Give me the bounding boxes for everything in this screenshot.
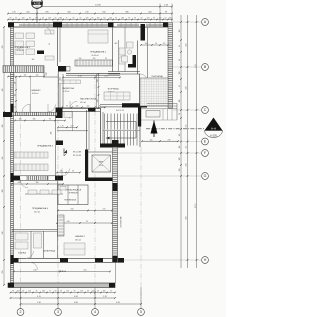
svg-text:95: 95 xyxy=(179,85,181,87)
svg-text:120: 120 xyxy=(86,18,89,20)
svg-text:СВЕТЛАРНИК: СВЕТЛАРНИК xyxy=(120,216,123,227)
svg-text:2.05: 2.05 xyxy=(102,209,105,211)
svg-text:95: 95 xyxy=(29,18,31,20)
svg-text:90: 90 xyxy=(13,75,15,77)
svg-text:239: 239 xyxy=(168,139,171,141)
svg-text:105: 105 xyxy=(24,75,27,77)
svg-text:840: 840 xyxy=(186,217,188,220)
svg-text:210: 210 xyxy=(85,12,88,14)
svg-text:60: 60 xyxy=(104,18,106,20)
svg-text:4.60: 4.60 xyxy=(116,302,120,304)
svg-text:140: 140 xyxy=(92,291,95,293)
svg-text:350: 350 xyxy=(2,157,4,160)
svg-text:60: 60 xyxy=(179,59,181,61)
svg-text:ЧИТАОНИЦА: ЧИТАОНИЦА xyxy=(43,250,56,253)
svg-text:28.6 м2: 28.6 м2 xyxy=(75,240,81,242)
svg-text:140: 140 xyxy=(28,291,31,293)
svg-text:90: 90 xyxy=(165,12,167,14)
svg-text:340: 340 xyxy=(33,119,36,121)
svg-text:КУХИЊА: КУХИЊА xyxy=(18,252,27,255)
svg-text:180: 180 xyxy=(121,18,124,20)
svg-text:213: 213 xyxy=(36,7,39,9)
svg-text:90: 90 xyxy=(49,119,51,121)
svg-text:60: 60 xyxy=(165,18,167,20)
svg-text:250: 250 xyxy=(102,12,105,14)
svg-text:290: 290 xyxy=(2,125,4,128)
svg-text:95: 95 xyxy=(14,106,16,108)
svg-text:70: 70 xyxy=(179,113,181,115)
svg-text:50: 50 xyxy=(80,18,82,20)
svg-text:150: 150 xyxy=(87,105,90,107)
svg-text:170: 170 xyxy=(12,12,15,14)
svg-text:140: 140 xyxy=(36,75,39,77)
svg-text:95: 95 xyxy=(92,18,94,20)
svg-text:45: 45 xyxy=(55,18,57,20)
svg-text:C: C xyxy=(204,108,207,112)
svg-text:105: 105 xyxy=(14,94,16,97)
svg-text:180: 180 xyxy=(103,291,106,293)
svg-text:G: G xyxy=(204,174,207,178)
svg-text:430: 430 xyxy=(186,87,188,90)
svg-text:430: 430 xyxy=(2,89,4,92)
svg-text:A-213: A-213 xyxy=(34,2,41,5)
svg-text:115: 115 xyxy=(186,146,188,149)
svg-text:ПРЕДАВАОНА 2: ПРЕДАВАОНА 2 xyxy=(90,51,107,54)
svg-text:95: 95 xyxy=(12,291,14,293)
svg-text:8x17.6 / 28: 8x17.6 / 28 xyxy=(116,110,124,112)
svg-text:45: 45 xyxy=(36,291,38,293)
svg-text:315: 315 xyxy=(186,125,188,128)
svg-text:95: 95 xyxy=(105,58,107,60)
svg-text:90: 90 xyxy=(10,18,12,20)
svg-text:90: 90 xyxy=(155,43,157,45)
svg-text:2: 2 xyxy=(20,310,22,314)
svg-text:3: 3 xyxy=(57,310,59,314)
svg-text:150: 150 xyxy=(35,18,38,20)
svg-text:150: 150 xyxy=(97,18,100,20)
svg-text:230: 230 xyxy=(179,169,181,172)
svg-text:ЗБОРНИЦА: ЗБОРНИЦА xyxy=(107,88,119,91)
svg-text:15.90: 15.90 xyxy=(95,5,101,7)
svg-text:КАБИНЕТ: КАБИНЕТ xyxy=(75,235,85,238)
svg-text:230: 230 xyxy=(186,164,188,167)
svg-text:2.40: 2.40 xyxy=(66,221,69,223)
svg-text:60: 60 xyxy=(87,291,89,293)
svg-text:ОПРЕМОМ: ОПРЕМОМ xyxy=(68,193,78,195)
svg-text:КЛ -16.93: КЛ -16.93 xyxy=(73,155,81,157)
svg-text:45: 45 xyxy=(115,18,117,20)
svg-text:H: H xyxy=(204,258,207,262)
svg-text:2.20: 2.20 xyxy=(103,296,107,298)
svg-text:130: 130 xyxy=(179,72,181,75)
svg-text:3.60: 3.60 xyxy=(74,302,78,304)
svg-text:380: 380 xyxy=(125,12,128,14)
svg-text:КАБИНЕТ: КАБИНЕТ xyxy=(31,89,41,92)
svg-text:170: 170 xyxy=(163,43,166,45)
svg-text:150: 150 xyxy=(159,18,162,20)
svg-text:12.95 м2: 12.95 м2 xyxy=(63,91,70,93)
svg-text:450: 450 xyxy=(186,44,188,47)
svg-text:75: 75 xyxy=(128,18,130,20)
svg-text:290: 290 xyxy=(45,12,48,14)
svg-text:105: 105 xyxy=(60,171,63,173)
svg-text:2.55: 2.55 xyxy=(104,76,108,78)
svg-text:60: 60 xyxy=(42,18,44,20)
svg-text:300: 300 xyxy=(32,59,35,61)
svg-text:125: 125 xyxy=(179,134,181,137)
svg-text:120: 120 xyxy=(66,291,69,293)
svg-text:3.60: 3.60 xyxy=(74,296,78,298)
svg-text:75: 75 xyxy=(49,291,51,293)
svg-text:4: 4 xyxy=(94,310,96,314)
svg-text:95: 95 xyxy=(153,18,155,20)
svg-text:250: 250 xyxy=(2,271,4,274)
svg-text:310: 310 xyxy=(2,190,4,193)
svg-text:530: 530 xyxy=(2,232,4,235)
svg-text:90: 90 xyxy=(49,43,51,45)
svg-text:150: 150 xyxy=(80,291,83,293)
svg-text:180: 180 xyxy=(42,291,45,293)
svg-text:140: 140 xyxy=(169,18,172,20)
svg-text:2.07: 2.07 xyxy=(70,125,73,127)
svg-text:КП -16.88: КП -16.88 xyxy=(73,152,81,154)
svg-text:230: 230 xyxy=(79,58,82,60)
svg-text:120: 120 xyxy=(76,105,79,107)
svg-text:50: 50 xyxy=(15,18,17,20)
svg-text:130: 130 xyxy=(97,80,99,83)
svg-text:140: 140 xyxy=(109,18,112,20)
svg-text:ЛАБОРАТОРИЈА: ЛАБОРАТОРИЈА xyxy=(80,98,97,101)
svg-text:50: 50 xyxy=(141,18,143,20)
svg-text:1.70: 1.70 xyxy=(60,125,63,127)
svg-text:140: 140 xyxy=(48,18,51,20)
svg-text:60: 60 xyxy=(22,291,24,293)
svg-text:160: 160 xyxy=(150,139,153,141)
svg-text:90: 90 xyxy=(134,18,136,20)
svg-text:90: 90 xyxy=(55,291,57,293)
svg-text:ПРЕДАВАОНА 3: ПРЕДАВАОНА 3 xyxy=(37,145,54,148)
svg-text:180: 180 xyxy=(179,100,181,103)
svg-text:49.90 м2: 49.90 м2 xyxy=(91,55,98,57)
svg-text:130: 130 xyxy=(14,82,16,85)
svg-text:46.3 м2: 46.3 м2 xyxy=(80,102,86,104)
svg-text:5.00: 5.00 xyxy=(83,270,86,272)
svg-text:220: 220 xyxy=(26,12,29,14)
svg-text:305: 305 xyxy=(51,132,53,135)
svg-text:95: 95 xyxy=(74,291,76,293)
svg-text:450: 450 xyxy=(2,46,4,49)
svg-text:3.60: 3.60 xyxy=(70,209,73,211)
svg-text:120: 120 xyxy=(179,158,181,161)
svg-text:СЛУШАОНИЦА СА: СЛУШАОНИЦА СА xyxy=(65,189,82,192)
svg-text:2.40: 2.40 xyxy=(37,302,41,304)
svg-text:240: 240 xyxy=(18,182,21,184)
svg-text:45: 45 xyxy=(97,291,99,293)
svg-text:150: 150 xyxy=(17,291,20,293)
svg-text:75: 75 xyxy=(66,18,68,20)
svg-text:300: 300 xyxy=(67,12,70,14)
svg-text:260: 260 xyxy=(148,12,151,14)
svg-text:4.60: 4.60 xyxy=(33,270,36,272)
svg-text:75: 75 xyxy=(110,291,112,293)
svg-text:700 кг: 700 кг xyxy=(99,165,104,167)
svg-text:ПРЕДАВАОНА 1: ПРЕДАВАОНА 1 xyxy=(14,46,31,49)
svg-text:150: 150 xyxy=(145,43,148,45)
svg-text:95: 95 xyxy=(86,221,88,223)
svg-text:ПРЕДАВАОНА 4: ПРЕДАВАОНА 4 xyxy=(32,207,49,210)
svg-text:120: 120 xyxy=(22,18,25,20)
svg-text:90: 90 xyxy=(66,105,68,107)
svg-text:50: 50 xyxy=(60,291,62,293)
svg-text:49.90 м2: 49.90 м2 xyxy=(16,50,23,52)
svg-text:A-205: A-205 xyxy=(210,134,217,137)
svg-text:ТЕЛЕВИЗИЈА: ТЕЛЕВИЗИЈА xyxy=(64,199,76,202)
svg-text:180: 180 xyxy=(59,18,62,20)
svg-text:18.30 м2: 18.30 м2 xyxy=(32,93,39,95)
svg-text:9.95: 9.95 xyxy=(195,64,197,68)
svg-text:ГАРДЕРОБА: ГАРДЕРОБА xyxy=(62,87,74,90)
svg-text:120: 120 xyxy=(93,58,96,60)
svg-text:10.70: 10.70 xyxy=(195,204,197,209)
svg-text:150: 150 xyxy=(19,119,22,121)
svg-text:115: 115 xyxy=(179,146,181,149)
svg-text:120: 120 xyxy=(147,18,150,20)
svg-text:4.10: 4.10 xyxy=(78,76,82,78)
svg-text:90: 90 xyxy=(72,171,74,173)
svg-text:160: 160 xyxy=(36,182,39,184)
svg-text:56.0 м2: 56.0 м2 xyxy=(34,212,40,214)
svg-text:120: 120 xyxy=(97,100,99,103)
svg-text:150: 150 xyxy=(179,30,181,33)
svg-text:УЧИОНИЦА: УЧИОНИЦА xyxy=(151,75,163,78)
svg-text:95: 95 xyxy=(179,45,181,47)
svg-text:4.15: 4.15 xyxy=(37,296,41,298)
svg-text:90: 90 xyxy=(73,18,75,20)
svg-text:5: 5 xyxy=(140,310,142,314)
